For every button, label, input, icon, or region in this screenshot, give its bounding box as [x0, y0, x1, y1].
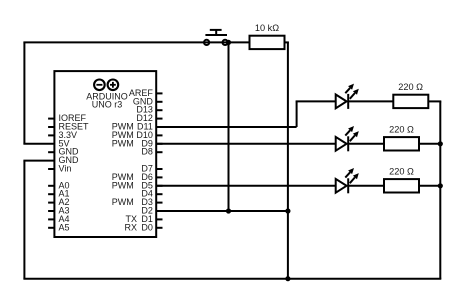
- resistor R2 value 220 Ω: [393, 82, 428, 108]
- svg-text:D0: D0: [141, 222, 153, 232]
- wire: top rail from left vertical to 10k resistor (5V net): [23, 41, 250, 43]
- node: pulldown vertical to bottom rail: [285, 276, 290, 281]
- wire: R4 to right vertical: [419, 185, 440, 187]
- svg-text:PWM: PWM: [112, 138, 134, 148]
- svg-text:220 Ω: 220 Ω: [398, 82, 423, 92]
- right pin stubs: [156, 93, 162, 227]
- svg-text:10 kΩ: 10 kΩ: [255, 23, 279, 33]
- LED LED3: [336, 168, 359, 193]
- resistor R1 (pull-down) value 10 kΩ: [250, 23, 285, 49]
- node: D2 wire to pulldown vertical: [285, 208, 290, 213]
- node: R2 to right vertical: [438, 141, 443, 146]
- wire: left vertical 5V net: [23, 42, 25, 143]
- wire: D11 step vertical up to LED1 row: [296, 101, 298, 127]
- svg-text:PWM: PWM: [112, 197, 134, 207]
- resistor R4 value 220 Ω: [384, 167, 419, 193]
- wire: D9 pin to LED2 anode: [156, 143, 336, 145]
- Arduino UNO r3 board U1: [54, 71, 156, 237]
- wire: R1 right end to right vertical: [428, 100, 442, 102]
- wire: right vertical to resistors ladder: [439, 101, 441, 278]
- node: button/resistor junction: [226, 40, 231, 45]
- wire: LED1 anode feed: [296, 100, 336, 102]
- svg-text:UNO r3: UNO r3: [92, 100, 123, 110]
- svg-text:220 Ω: 220 Ω: [389, 125, 414, 135]
- wire: 10k resistor to pulldown vertical: [284, 41, 289, 43]
- resistor R3 value 220 Ω: [384, 125, 419, 151]
- wire: bottom rail GND net: [23, 278, 441, 280]
- wire: LED2 cathode to R3: [348, 143, 384, 145]
- wire: D11 pin horizontal: [156, 126, 296, 128]
- svg-text:D8: D8: [141, 147, 153, 157]
- svg-text:PWM: PWM: [112, 180, 134, 190]
- right pin labels: [112, 88, 154, 232]
- wire: pulldown vertical from 10k to bottom rail: [287, 42, 289, 278]
- node: D2 wire to button vertical: [226, 208, 231, 213]
- node: R3 to right vertical: [438, 183, 443, 188]
- wire: left vertical GND net: [23, 161, 25, 279]
- svg-text:RX: RX: [124, 222, 137, 232]
- svg-text:220 Ω: 220 Ω: [389, 167, 414, 177]
- wire: D2 pin to pulldown node: [156, 210, 288, 212]
- left pin labels: [59, 113, 90, 232]
- wire: LED3 cathode to R4: [348, 185, 384, 187]
- left pin stubs: [48, 119, 54, 228]
- LED LED2: [336, 126, 359, 151]
- LED LED1: [336, 84, 359, 109]
- svg-text:A5: A5: [59, 222, 70, 232]
- Arduino logo: [94, 80, 118, 91]
- wire: LED1 cathode to R1: [348, 100, 393, 102]
- wire: button junction vertical down to D2 row: [228, 42, 230, 211]
- svg-text:Vin: Vin: [59, 164, 72, 174]
- wire: GND pin connection: [23, 160, 54, 162]
- wire: 5V pin connection: [23, 143, 54, 145]
- wire: R3 to right vertical: [419, 143, 440, 145]
- wire: D5 pin to LED3 anode: [156, 185, 336, 187]
- pushbutton S1: [204, 30, 228, 45]
